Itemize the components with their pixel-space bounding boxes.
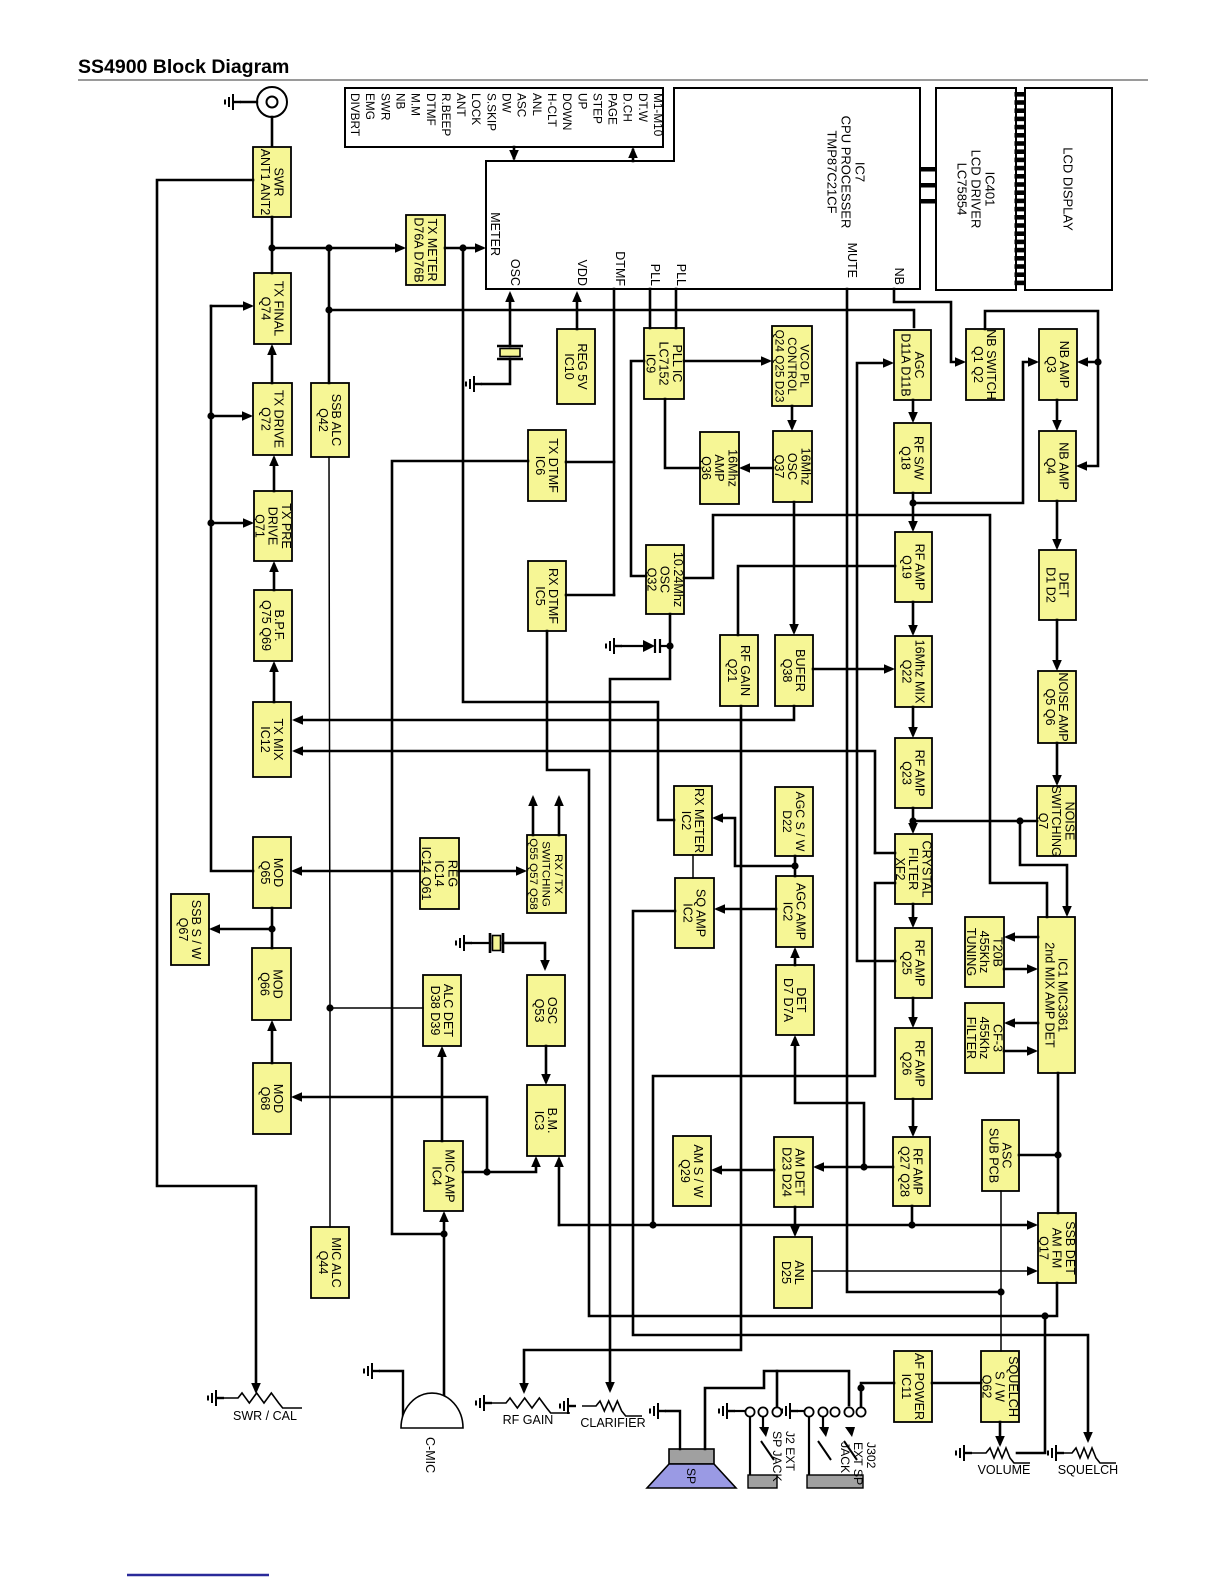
- wire IF bus: [559, 1224, 1034, 1227]
- junction noise switching tap: [1016, 817, 1023, 824]
- svg-text:DW: DW: [500, 93, 514, 114]
- arrowhead into VCO PL: [761, 356, 772, 366]
- crystal X1 at CPU OSC: [497, 346, 523, 359]
- junction AGC feed: [325, 306, 332, 313]
- speaker magnet: [669, 1449, 714, 1464]
- block NOISE AMP Q5 Q6: [1038, 671, 1076, 743]
- block RX DTMF IC5: [528, 561, 566, 631]
- wire ground to antenna: [241, 101, 257, 103]
- junction IF bus left: [649, 1221, 656, 1228]
- arrowhead into RF AMP Q23: [908, 727, 918, 738]
- arrowhead into RF AMP Q25: [908, 917, 918, 928]
- junction SSB S/W tap: [268, 925, 275, 932]
- ribbon connector between LCD driver and LCD display: [1015, 92, 1026, 285]
- svg-text:ANT: ANT: [454, 93, 468, 117]
- wire TX MIX to BPF: [273, 665, 276, 702]
- block ANL D25: [774, 1237, 812, 1308]
- block BUFER Q38: [775, 635, 813, 706]
- block TX MIX IC12: [253, 702, 291, 777]
- ground at clarifier diode: [606, 638, 622, 654]
- ground at CPU crystal: [466, 376, 482, 392]
- block RF GAIN Q21: [720, 635, 758, 706]
- block TX DRIVE Q72: [253, 383, 292, 455]
- arrowhead into CPU VDD: [572, 291, 582, 302]
- svg-text:SQUELCH: SQUELCH: [1058, 1463, 1118, 1477]
- wire SQ AMP to SQUELCH pot: [633, 911, 1088, 1439]
- junction RF S/W out: [909, 499, 916, 506]
- arrowhead into RX METER: [712, 813, 723, 823]
- wire ground to C-MIC: [380, 1371, 403, 1416]
- wire SWR to junction: [271, 217, 274, 248]
- wire AM DET to ANL: [794, 1207, 797, 1233]
- junction NB amp feed: [1094, 358, 1101, 365]
- arrowhead into signal list: [628, 147, 638, 158]
- wire MIC AMP to MOD Q68: [295, 1097, 487, 1172]
- block 16Mhz MIX Q22: [895, 636, 932, 707]
- block MOD Q68: [253, 1063, 291, 1134]
- wire IF bus to B.M: [558, 1160, 561, 1225]
- svg-text:RF AMPQ27 Q28: RF AMPQ27 Q28: [898, 1146, 925, 1197]
- block RF AMP Q23: [895, 738, 932, 808]
- ground at CLARIFIER: [560, 1398, 576, 1414]
- svg-text:H-CLT: H-CLT: [545, 93, 559, 127]
- wire CRYSTAL FILTER to RF AMP Q25: [912, 904, 915, 924]
- title underline rule: [78, 79, 1148, 81]
- arrowhead RX/TX out2: [554, 795, 564, 806]
- wire IC1 to T20B: [1008, 936, 1038, 939]
- block MOD Q66: [252, 948, 291, 1020]
- svg-text:RF GAIN: RF GAIN: [503, 1413, 554, 1427]
- wire PLL IC to 10.24Mhz OSC: [631, 361, 646, 576]
- wire RF AMP Q23 to CRYSTAL FILTER: [912, 808, 915, 830]
- wire MOD feed vertical: [211, 306, 253, 871]
- arrowhead into SQUELCH pot: [1083, 1432, 1093, 1443]
- CPU to LCD driver stub pins: [920, 167, 936, 204]
- block DET D7 D7A: [776, 965, 814, 1035]
- block T20B 455Khz TUNING: [964, 917, 1004, 987]
- block NOISE SWITCHING Q7: [1036, 785, 1077, 856]
- block RF S/W Q18: [894, 423, 931, 493]
- wire TX DRIVE to TX FINAL: [271, 348, 274, 383]
- junction diode tap: [666, 642, 673, 649]
- arrowhead into RF GAIN pot: [519, 1383, 529, 1394]
- wire CPU to signal list (up): [632, 150, 635, 161]
- wire ASC SUB PCB to SQUELCH S/W: [1000, 1191, 1002, 1351]
- wire ANL to SSB DET: [812, 1270, 1034, 1272]
- wire AGC to RF S/W: [912, 400, 915, 419]
- svg-text:ASC: ASC: [515, 93, 529, 118]
- junction ALC DET tap: [326, 1004, 333, 1011]
- block OSC Q53: [527, 975, 565, 1046]
- ground at SQUELCH: [1048, 1445, 1064, 1461]
- wire J2 to J302 switch: [777, 1371, 849, 1405]
- wire NB AMP Q3 to Q4: [1056, 400, 1059, 427]
- resistor SWR/CAL pot: [224, 1393, 302, 1408]
- block 10.24Mhz OSC Q32: [644, 545, 684, 614]
- wire CPU PLL pin 2: [675, 289, 678, 328]
- arrowhead into MOD Q66: [267, 1020, 277, 1031]
- block REG IC14 Q61: [419, 838, 459, 909]
- arrowhead into ALC DET: [437, 1046, 447, 1057]
- wire RX DTMF right: [566, 594, 614, 597]
- svg-text:TX METERD76A D76B: TX METERD76A D76B: [412, 217, 439, 282]
- arrowhead into IC1 (CF-3): [1027, 1046, 1038, 1056]
- junction Q23 out: [909, 817, 916, 824]
- block SWR ANT1 ANT2: [253, 147, 291, 217]
- wire branch to TX DRIVE: [211, 415, 249, 418]
- arrowhead into IC1 top: [1062, 906, 1072, 917]
- svg-text:AM DETD23 D24: AM DETD23 D24: [780, 1147, 807, 1197]
- junction ASC tap: [1054, 1151, 1061, 1158]
- arrowhead into NOISE SWITCHING: [1052, 775, 1062, 786]
- wire TX METER to CPU METER pin: [445, 247, 482, 250]
- wire C-MIC to junction: [443, 1234, 446, 1395]
- wire TX FINAL to SWR junction: [271, 248, 274, 273]
- wire RF S/W to NB AMP Q3: [913, 362, 1035, 503]
- wire AF POWER to SQUELCH S/W: [932, 1382, 981, 1385]
- wire PLL IC to 16Mhz AMP: [665, 399, 700, 468]
- block TX PRE DRIVE Q71: [252, 491, 292, 561]
- wire junction to TX METER: [272, 247, 402, 250]
- wire speaker to J2 jack: [705, 1371, 777, 1449]
- wire REG5V to CPU VDD: [576, 295, 579, 329]
- arrowhead into NB AMP Q4: [1076, 461, 1087, 471]
- block RX/TX SWITCHING Q55 Q57 Q58: [527, 835, 566, 913]
- arrowhead into MOD Q68: [291, 1092, 302, 1102]
- svg-text:DETD1 D2: DETD1 D2: [1044, 567, 1071, 603]
- arrowhead into BUFER: [789, 624, 799, 635]
- resistor RF GAIN pot: [492, 1398, 570, 1413]
- wire SWR to SWR/CAL pot: [157, 180, 256, 1390]
- svg-text:DT.W: DT.W: [636, 93, 650, 123]
- wire CPU PLL pin 1: [649, 289, 652, 328]
- wire ground to crystal X2: [472, 942, 490, 944]
- arrowhead into TX FINAL bottom: [267, 344, 277, 355]
- svg-text:R.BEEP: R.BEEP: [439, 93, 453, 136]
- arrowhead into 16Mhz MIX: [884, 664, 895, 674]
- svg-text:MUTE: MUTE: [845, 243, 859, 278]
- wire NB feed to NB AMP Q3: [1081, 361, 1098, 364]
- wire AM DET to AM S/W: [715, 1169, 774, 1172]
- arrowhead into MIC AMP bottom: [439, 1211, 449, 1222]
- arrowhead into SSB S/W: [209, 924, 220, 934]
- wire branch to TX PRE: [211, 522, 250, 525]
- arrowhead into SSB DET in2: [1027, 1266, 1038, 1276]
- footer blue rule: [127, 1574, 269, 1576]
- wire crystal to ground: [482, 359, 510, 384]
- wire MIC AMP out: [463, 1160, 536, 1172]
- ground at RF GAIN: [476, 1395, 492, 1411]
- arrowhead into NB AMP Q3 right: [1077, 357, 1088, 367]
- wire AGC feed line to AGC block: [329, 310, 914, 327]
- wire 10.24 OSC to IC1: [684, 515, 1047, 917]
- block SSB DET AM FM Q17: [1036, 1213, 1076, 1283]
- wire VCO to 16Mhz OSC: [791, 406, 794, 427]
- wire ground to speaker: [666, 1411, 680, 1449]
- wire RF AMP Q19 to MIX: [912, 602, 915, 632]
- svg-text:STEP: STEP: [590, 93, 604, 124]
- svg-text:DOWN: DOWN: [560, 93, 574, 130]
- svg-text:OSCQ53: OSCQ53: [532, 997, 559, 1024]
- arrowhead into AGC AMP bottom: [790, 947, 800, 958]
- CPU processor box IC7 TMP87C21CF: [486, 88, 920, 289]
- svg-text:B.M.IC3: B.M.IC3: [532, 1108, 559, 1134]
- wire TX DTMF right: [566, 461, 614, 464]
- wire audio to VOLUME pot: [1017, 1316, 1045, 1453]
- svg-text:PAGE: PAGE: [606, 93, 620, 125]
- block AF POWER IC11: [894, 1351, 932, 1422]
- wire SSB ALC to ALC DET / MIC ALC: [329, 457, 330, 1227]
- wire RF GAIN Q21 to RF AMP Q19: [738, 566, 895, 635]
- wire IC1 to CF-3: [1008, 1022, 1038, 1025]
- junction TX PRE feed: [207, 519, 214, 526]
- block CF-3 455Khz FILTER: [964, 1003, 1004, 1073]
- arrowhead into NB SWITCH: [955, 357, 966, 367]
- wire noise tap to IC1: [1020, 821, 1067, 913]
- arrowhead into CF-3: [1004, 1018, 1015, 1028]
- svg-text:SP: SP: [684, 1468, 698, 1484]
- svg-text:M.M: M.M: [409, 93, 423, 116]
- wire RX/TX up arrow 2: [558, 799, 561, 835]
- arrowhead into DET D1 D2: [1052, 539, 1062, 550]
- svg-text:M1-M10: M1-M10: [651, 93, 665, 137]
- block DET D1 D2: [1039, 550, 1076, 620]
- arrowhead into 16Mhz MIX top: [908, 625, 918, 636]
- block TX DTMF IC6: [528, 430, 566, 501]
- svg-text:ANL: ANL: [530, 93, 544, 116]
- wire RF GAIN pot to Q21: [524, 706, 741, 1390]
- wire RF AMP Q27 to AM DET: [817, 1166, 893, 1169]
- wire RF AMP Q27 to IF bus: [911, 1206, 914, 1225]
- block RF AMP Q27 Q28: [893, 1137, 930, 1206]
- arrowhead into TX FINAL: [243, 301, 254, 311]
- jack J2 EXT SP JACK: [745, 1407, 781, 1488]
- wire crystal X2 to OSC Q53: [503, 943, 545, 967]
- arrowhead into TX DRIVE: [242, 411, 253, 421]
- svg-text:SWR / CAL: SWR / CAL: [233, 1409, 297, 1423]
- svg-text:LCD DISPLAY: LCD DISPLAY: [1061, 147, 1076, 231]
- ground at SWR/CAL: [208, 1390, 224, 1406]
- block AGC AMP IC2: [776, 876, 813, 947]
- block TX METER D76A D76B: [406, 215, 445, 285]
- arrowhead RX/TX out1: [528, 795, 538, 806]
- block NB AMP Q4: [1039, 431, 1076, 501]
- svg-text:MODQ68: MODQ68: [258, 1084, 285, 1113]
- varactor diode D at clarifier line: [643, 639, 660, 653]
- wire CPU OSC pin: [509, 295, 512, 346]
- junction AGC amp in: [791, 862, 798, 869]
- arrowhead into BPF bottom: [269, 661, 279, 672]
- block SQUELCH S/W Q62: [979, 1351, 1019, 1422]
- block VCO PL CONTROL Q24 Q25 D23: [772, 326, 812, 406]
- svg-text:DTMF: DTMF: [613, 251, 627, 286]
- junction TX DRIVE feed: [207, 412, 214, 419]
- wire BUFER to 16Mhz MIX: [813, 668, 891, 671]
- wire TX PRE to TX DRIVE: [273, 459, 276, 491]
- crystal X2 at OSC Q53: [490, 933, 503, 953]
- svg-text:METER: METER: [488, 212, 502, 256]
- wire AGC junction to RX METER: [716, 818, 795, 866]
- junction METER line: [459, 244, 466, 251]
- svg-text:DTMF: DTMF: [424, 93, 438, 126]
- wire Q23 out to NOISE SWITCHING: [913, 820, 1037, 823]
- wire BPF to TX PRE: [273, 565, 276, 590]
- block SQ AMP IC2: [675, 878, 714, 948]
- svg-text:ALC DETD38 D39: ALC DETD38 D39: [428, 984, 455, 1037]
- wire REG IC14 to MOD Q65: [295, 870, 420, 873]
- ground at antenna: [225, 94, 241, 110]
- junction mic line: [440, 1230, 447, 1237]
- ground at C-MIC: [364, 1363, 380, 1379]
- wire NOISE AMP to NOISE SWITCHING: [1056, 743, 1059, 782]
- arrowhead into B.M top: [541, 1074, 551, 1085]
- arrowhead into CRYSTAL FILTER: [908, 823, 918, 834]
- arrowhead into IC1 (T20B): [1027, 964, 1038, 974]
- junction SWR output: [268, 244, 275, 251]
- junction AM det line: [860, 1163, 867, 1170]
- wire branch to TX FINAL: [211, 305, 250, 308]
- block CRYSTAL FILTER XF2: [893, 834, 933, 904]
- wire MIX to RF AMP Q23: [912, 707, 915, 734]
- block NB SWITCH Q1 Q2: [966, 329, 1004, 400]
- arrowhead into T20B: [1004, 932, 1015, 942]
- arrowhead into B.M bottom right: [554, 1156, 564, 1167]
- wire MIC AMP to ALC DET: [441, 1050, 444, 1141]
- arrowhead into TX MIX in1: [292, 715, 303, 725]
- block MIC AMP IC4: [424, 1141, 463, 1211]
- svg-text:S.SKIP: S.SKIP: [484, 93, 498, 131]
- block RX METER IC2: [674, 786, 712, 855]
- wire diode to junction: [662, 645, 670, 647]
- condenser microphone C-MIC: [401, 1393, 463, 1428]
- wire SSB DET audio out: [547, 631, 1057, 1316]
- arrowhead into MOD Q65: [291, 866, 302, 876]
- arrowhead into AM DET: [813, 1162, 824, 1172]
- wire SQUELCH S/W to VOLUME: [999, 1422, 1002, 1443]
- wire T20B to IC1: [1004, 968, 1034, 971]
- wire RF AMP Q26 to RF AMP Q27: [912, 1099, 915, 1133]
- jack J302 EXT SP JACK: [804, 1407, 865, 1488]
- wire BUFER to TX MIX: [296, 706, 794, 720]
- svg-text:PLL: PLL: [648, 264, 662, 286]
- arrowhead into CPU METER: [475, 243, 486, 253]
- wire TX DTMF left net: [392, 461, 528, 1234]
- svg-text:NB: NB: [892, 268, 906, 285]
- arrowhead into NB AMP Q3: [1028, 357, 1039, 367]
- block SSB ALC Q42: [311, 383, 349, 457]
- wire Q25 to AGC: [857, 363, 895, 961]
- wire IC1 to SSB DET Q17: [1057, 1073, 1060, 1213]
- arrowhead into RF S/W: [908, 412, 918, 423]
- LCD driver box IC401: [936, 88, 1016, 290]
- svg-text:D.CH: D.CH: [621, 93, 635, 122]
- svg-text:NB: NB: [393, 93, 407, 110]
- wire 16Mhz OSC to 16Mhz AMP: [743, 467, 773, 470]
- wire ground to diode: [622, 645, 643, 647]
- junction MIC AMP out: [483, 1168, 490, 1175]
- block SSB S/W Q67: [171, 894, 209, 965]
- arrowhead into VOLUME pot: [995, 1436, 1005, 1447]
- svg-text:SWR: SWR: [378, 93, 392, 121]
- block TX FINAL Q74: [254, 273, 291, 344]
- block IC1 MIC3361 2nd MIX AMP DET: [1038, 917, 1075, 1073]
- junction SSB-ALC tap: [325, 244, 332, 251]
- wire ASC SUB PCB to IC1 line: [1019, 1154, 1058, 1157]
- svg-text:VOLUME: VOLUME: [978, 1463, 1031, 1477]
- wire AGC AMP to SQ AMP: [718, 908, 776, 911]
- wire OSC Q53 to B.M: [545, 1046, 548, 1081]
- arrowhead into TX PRE bottom: [269, 561, 279, 572]
- arrowhead into SSB DET in1: [1027, 1220, 1038, 1230]
- wire ground to J302: [798, 1410, 804, 1412]
- CPU signal list box: [345, 88, 663, 147]
- wire to ALC DET left: [330, 1007, 423, 1009]
- wire RF AMP Q25 to RF AMP Q26: [912, 998, 915, 1024]
- svg-text:C-MIC: C-MIC: [423, 1437, 437, 1473]
- block 16Mhz AMP Q36: [699, 432, 739, 504]
- LCD display box: [1025, 88, 1112, 290]
- wire 16Mhz OSC to BUFER: [793, 502, 796, 631]
- arrowhead into OSC Q53: [540, 960, 550, 971]
- wire MOD Q68 to MOD Q66: [271, 1024, 274, 1063]
- wire MOD Q65 down: [271, 908, 274, 948]
- block ALC DET D38 D39: [423, 975, 461, 1046]
- wire 10.24 OSC bottom to clarifier: [610, 614, 670, 1389]
- block AGC D11A D11B: [894, 330, 931, 400]
- resistor SQUELCH pot: [1058, 1448, 1116, 1463]
- wire AM line to DET D7: [795, 1039, 864, 1167]
- svg-text:CLARIFIER: CLARIFIER: [580, 1416, 645, 1430]
- arrowhead into CPU top: [509, 150, 519, 161]
- arrowhead into NOISE AMP: [1052, 660, 1062, 671]
- block RF AMP Q25: [895, 928, 932, 998]
- wire PLL IC to VCO: [684, 360, 768, 363]
- wire CPU MUTE line: [847, 289, 1001, 1292]
- ground at J2: [719, 1403, 735, 1419]
- ground at speaker: [650, 1403, 666, 1419]
- arrowhead into B.M bottom left: [531, 1156, 541, 1167]
- svg-text:PLL: PLL: [674, 264, 688, 286]
- block MOD Q65: [253, 837, 291, 908]
- junction volume tap: [1041, 1312, 1048, 1319]
- wire CRYSTAL FILTER left 2 down to IF bus: [653, 883, 895, 1225]
- svg-text:EMG: EMG: [363, 93, 377, 120]
- arrowhead into NB AMP Q4 top: [1052, 420, 1062, 431]
- speaker cone SP: [647, 1464, 736, 1488]
- junction IF bus right: [908, 1221, 915, 1228]
- wire METER junction to RX METER: [463, 248, 674, 820]
- wire NB AMP Q4 to DET: [1056, 501, 1059, 546]
- arrowhead into CPU OSC: [505, 291, 515, 302]
- wire antenna to SWR: [271, 117, 274, 147]
- resistor VOLUME pot: [972, 1448, 1030, 1463]
- block B.M IC3: [527, 1085, 565, 1156]
- wire RX METER to SQ AMP: [692, 855, 694, 878]
- wire DET to NOISE AMP: [1056, 620, 1059, 667]
- arrowhead into AM S/W: [711, 1165, 722, 1175]
- svg-text:MODQ65: MODQ65: [258, 858, 285, 887]
- arrowhead into RF AMP Q27: [908, 1126, 918, 1137]
- block AGC S/W D22: [775, 787, 813, 856]
- junction MUTE to volume line: [997, 1288, 1004, 1295]
- wire AGC S/W to AGC AMP: [794, 856, 797, 876]
- wire RF S/W to RF AMP Q19: [912, 493, 915, 528]
- arrowhead into SWR/CAL: [251, 1383, 261, 1394]
- svg-text:UP: UP: [575, 93, 589, 110]
- arrowhead into 16Mhz OSC: [787, 420, 797, 431]
- arrowhead into DET D7 bottom: [790, 1035, 800, 1046]
- svg-text:ANLD25: ANLD25: [779, 1260, 806, 1285]
